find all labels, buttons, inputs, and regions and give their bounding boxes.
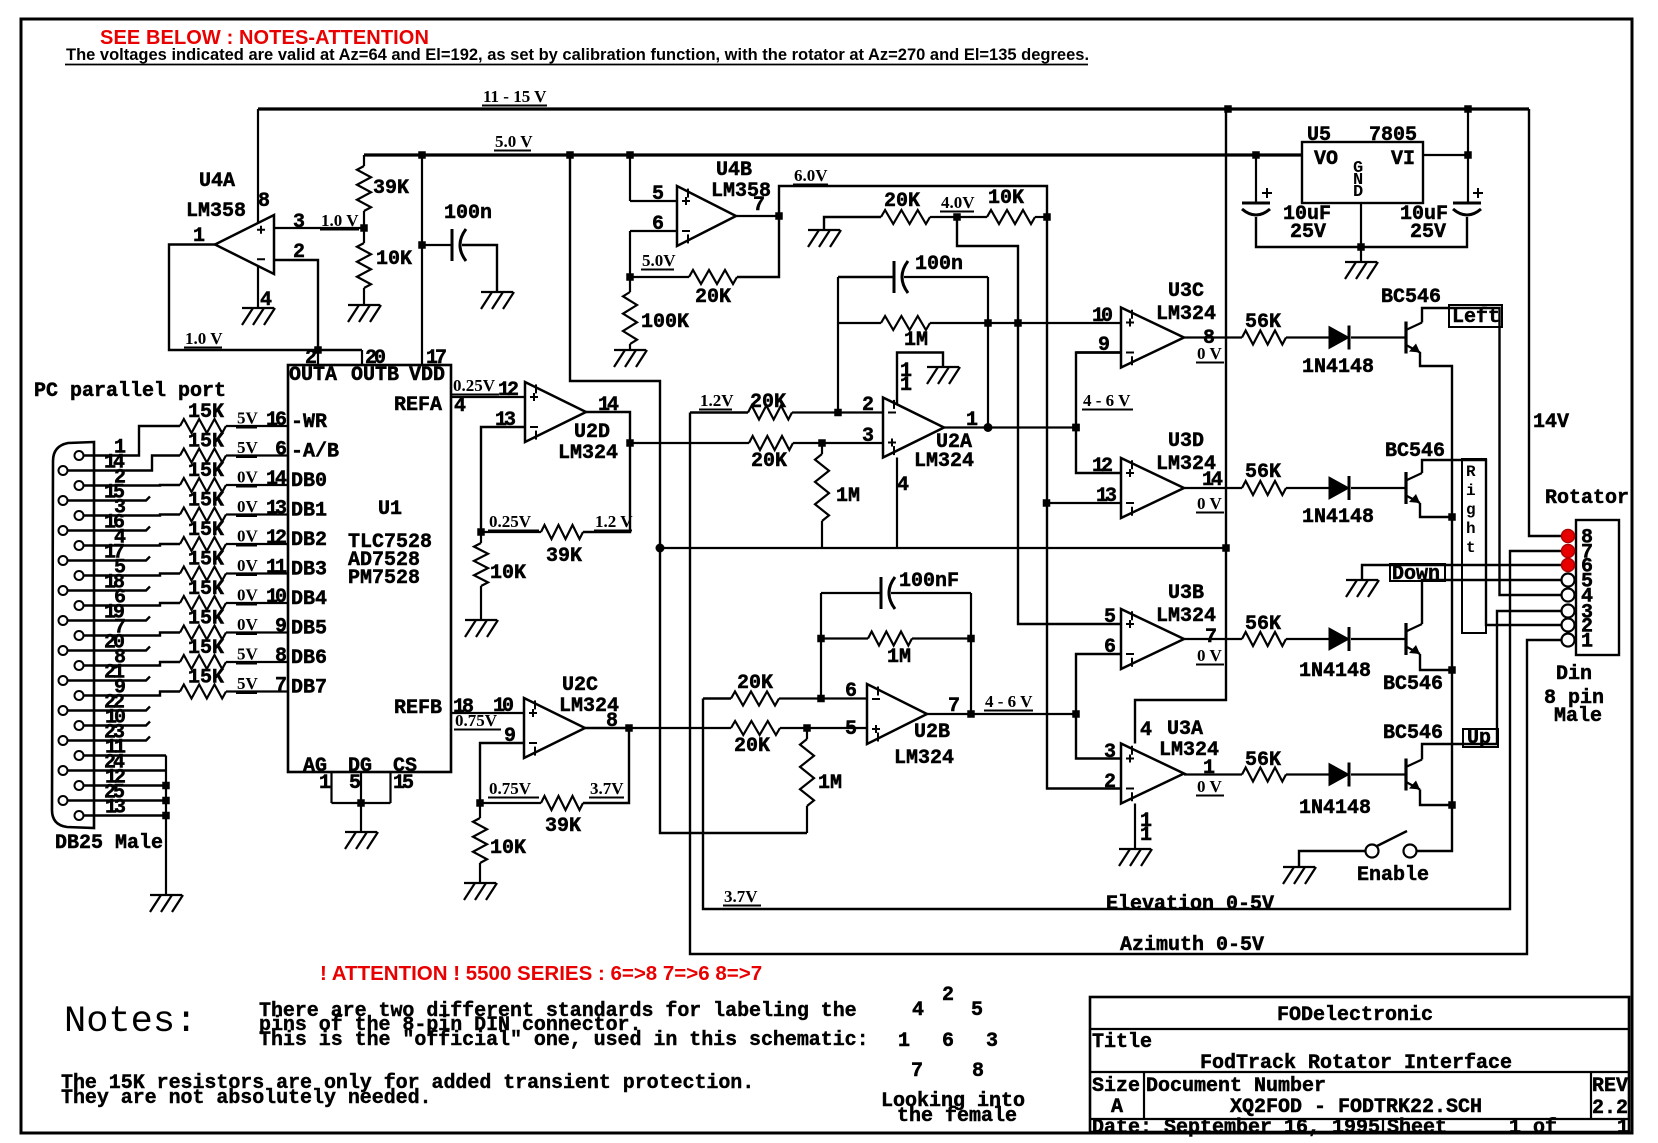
svg-text:4.0V: 4.0V <box>941 193 975 212</box>
svg-text:Left: Left <box>1452 306 1500 329</box>
svg-text:U3D: U3D <box>1168 430 1204 453</box>
svg-text:1M: 1M <box>887 646 911 669</box>
svg-text:7805: 7805 <box>1369 124 1417 147</box>
svg-text:3.7V: 3.7V <box>590 779 624 798</box>
svg-text:15K: 15K <box>188 460 224 483</box>
svg-text:U4A: U4A <box>199 170 235 193</box>
svg-text:15K: 15K <box>188 667 224 690</box>
svg-text:5: 5 <box>971 999 983 1022</box>
svg-text:0 V: 0 V <box>1197 494 1222 513</box>
svg-text:g: g <box>1466 501 1476 519</box>
svg-text:DB4: DB4 <box>291 588 327 611</box>
svg-text:10K: 10K <box>490 837 526 860</box>
svg-text:Sheet: Sheet <box>1387 1117 1447 1140</box>
svg-text:Male: Male <box>1554 705 1602 728</box>
svg-text:39K: 39K <box>546 545 582 568</box>
svg-text:t: t <box>1466 539 1476 557</box>
svg-text:DB5: DB5 <box>291 618 327 641</box>
svg-text:U2D: U2D <box>574 421 610 444</box>
svg-text:U3B: U3B <box>1168 582 1204 605</box>
svg-text:VO: VO <box>1314 148 1338 171</box>
svg-text:The voltages indicated are val: The voltages indicated are valid at Az=6… <box>66 46 1089 64</box>
svg-text:0V: 0V <box>237 556 259 575</box>
svg-text:1.0 V: 1.0 V <box>321 211 359 230</box>
svg-text:0V: 0V <box>237 497 259 516</box>
svg-text:8: 8 <box>972 1060 984 1083</box>
svg-text:Rotator: Rotator <box>1545 487 1629 510</box>
svg-text:14: 14 <box>266 468 287 491</box>
svg-text:20K: 20K <box>737 672 773 695</box>
svg-text:15K: 15K <box>188 608 224 631</box>
svg-text:56K: 56K <box>1245 749 1281 772</box>
svg-text:20: 20 <box>365 347 385 370</box>
svg-text:100nF: 100nF <box>899 570 959 593</box>
svg-text:10: 10 <box>266 586 286 609</box>
svg-text:4 - 6 V: 4 - 6 V <box>985 692 1033 711</box>
svg-text:6.0V: 6.0V <box>794 166 828 185</box>
svg-text:VI: VI <box>1391 148 1415 171</box>
svg-text:13: 13 <box>495 409 515 432</box>
svg-text:14V: 14V <box>1533 411 1569 434</box>
svg-text:100K: 100K <box>641 311 689 334</box>
svg-text:10K: 10K <box>490 562 526 585</box>
svg-text:5V: 5V <box>237 438 259 457</box>
svg-text:DB3: DB3 <box>291 559 327 582</box>
svg-text:i: i <box>1466 482 1476 500</box>
svg-text:R: R <box>1466 463 1476 481</box>
svg-text:4: 4 <box>912 999 924 1022</box>
svg-text:15K: 15K <box>188 549 224 572</box>
svg-text:7: 7 <box>911 1060 923 1083</box>
svg-text:Elevation 0-5V: Elevation 0-5V <box>1106 893 1274 916</box>
svg-text:REFB: REFB <box>394 697 442 720</box>
svg-text:15K: 15K <box>188 519 224 542</box>
svg-text:1.2 V: 1.2 V <box>595 512 633 531</box>
svg-text:11 - 15 V: 11 - 15 V <box>483 87 547 106</box>
svg-text:Down: Down <box>1392 563 1440 586</box>
svg-text:20K: 20K <box>695 286 731 309</box>
svg-text:h: h <box>1466 520 1476 538</box>
svg-text:5.0V: 5.0V <box>642 251 676 270</box>
svg-text:Document Number: Document Number <box>1146 1075 1326 1098</box>
svg-text:20K: 20K <box>884 190 920 213</box>
svg-text:5V: 5V <box>237 409 259 428</box>
svg-text:-WR: -WR <box>291 411 327 434</box>
svg-text:DB2: DB2 <box>291 529 327 552</box>
svg-text:They are not absolutely needed: They are not absolutely needed. <box>61 1087 432 1110</box>
svg-text:1 of: 1 of <box>1509 1117 1557 1140</box>
svg-text:15K: 15K <box>188 431 224 454</box>
svg-text:U4B: U4B <box>716 159 752 182</box>
svg-text:14: 14 <box>598 394 619 417</box>
svg-text:39K: 39K <box>373 177 409 200</box>
svg-text:LM324: LM324 <box>558 442 618 465</box>
svg-text:DB0: DB0 <box>291 470 327 493</box>
svg-text:13: 13 <box>105 797 125 820</box>
svg-text:15K: 15K <box>188 578 224 601</box>
svg-text:20K: 20K <box>750 391 786 414</box>
svg-text:1N4148: 1N4148 <box>1299 660 1371 683</box>
svg-text:0.25V: 0.25V <box>489 512 532 531</box>
svg-text:15K: 15K <box>188 637 224 660</box>
svg-text:-A/B: -A/B <box>291 441 339 464</box>
svg-text:20K: 20K <box>734 735 770 758</box>
svg-text:15K: 15K <box>188 490 224 513</box>
svg-text:U1: U1 <box>378 498 402 521</box>
svg-text:16: 16 <box>266 409 286 432</box>
svg-text:20K: 20K <box>751 450 787 473</box>
svg-text:15K: 15K <box>188 401 224 424</box>
svg-text:! ATTENTION ! 5500 SERIES : 6=: ! ATTENTION ! 5500 SERIES : 6=>8 7=>6 8=… <box>320 962 762 985</box>
svg-text:Enable: Enable <box>1357 864 1429 887</box>
svg-text:12: 12 <box>498 379 518 402</box>
svg-text:39K: 39K <box>545 815 581 838</box>
svg-text:5V: 5V <box>237 674 259 693</box>
svg-text:LM324: LM324 <box>1156 303 1216 326</box>
svg-text:DB1: DB1 <box>291 500 327 523</box>
svg-text:1.0 V: 1.0 V <box>185 329 223 348</box>
svg-text:3: 3 <box>986 1030 998 1053</box>
svg-text:5V: 5V <box>237 645 259 664</box>
svg-text:3.7V: 3.7V <box>724 887 758 906</box>
svg-text:BC546: BC546 <box>1381 286 1441 309</box>
svg-text:5.0 V: 5.0 V <box>495 132 533 151</box>
svg-text:10: 10 <box>1092 305 1112 328</box>
svg-text:U3C: U3C <box>1168 280 1204 303</box>
svg-text:Notes:: Notes: <box>64 1001 197 1043</box>
svg-text:13: 13 <box>266 498 286 521</box>
svg-text:U2C: U2C <box>562 674 598 697</box>
svg-text:Date: September 16, 1995: Date: September 16, 1995 <box>1092 1117 1380 1140</box>
svg-text:PC parallel port: PC parallel port <box>34 380 226 403</box>
svg-text:1N4148: 1N4148 <box>1302 356 1374 379</box>
svg-text:LM324: LM324 <box>894 747 954 770</box>
svg-text:Up: Up <box>1467 727 1491 750</box>
svg-text:12: 12 <box>1092 455 1112 478</box>
svg-text:DB6: DB6 <box>291 647 327 670</box>
svg-text:REFA: REFA <box>394 394 442 417</box>
svg-text:56K: 56K <box>1245 461 1281 484</box>
svg-text:14: 14 <box>1202 469 1223 492</box>
svg-text:100n: 100n <box>444 202 492 225</box>
svg-text:12: 12 <box>266 527 286 550</box>
svg-text:6: 6 <box>942 1030 954 1053</box>
svg-text:0V: 0V <box>237 586 259 605</box>
svg-text:4 - 6 V: 4 - 6 V <box>1083 391 1131 410</box>
svg-text:11: 11 <box>266 557 287 580</box>
svg-text:Title: Title <box>1092 1031 1152 1054</box>
svg-text:U5: U5 <box>1307 124 1331 147</box>
svg-text:1M: 1M <box>904 329 928 352</box>
svg-text:10K: 10K <box>376 248 412 271</box>
svg-text:DB25 Male: DB25 Male <box>55 832 163 855</box>
svg-text:Azimuth 0-5V: Azimuth 0-5V <box>1120 934 1264 957</box>
svg-text:10K: 10K <box>988 187 1024 210</box>
svg-text:DB7: DB7 <box>291 677 327 700</box>
svg-text:25V: 25V <box>1410 221 1446 244</box>
svg-text:15: 15 <box>393 772 413 795</box>
svg-text:This is the "official" one, us: This is the "official" one, used in this… <box>259 1029 869 1052</box>
svg-text:25V: 25V <box>1290 221 1326 244</box>
svg-text:10: 10 <box>493 695 513 718</box>
svg-text:Size: Size <box>1092 1075 1140 1098</box>
svg-text:56K: 56K <box>1245 311 1281 334</box>
svg-text:LM358: LM358 <box>186 200 246 223</box>
svg-text:1: 1 <box>1581 631 1593 654</box>
svg-text:U3A: U3A <box>1167 718 1203 741</box>
svg-text:1.2V: 1.2V <box>700 391 734 410</box>
svg-text:0V: 0V <box>237 468 259 487</box>
svg-text:1N4148: 1N4148 <box>1302 506 1374 529</box>
svg-text:0.75V: 0.75V <box>489 779 532 798</box>
svg-text:0.25V: 0.25V <box>453 376 496 395</box>
svg-text:REV: REV <box>1592 1075 1628 1098</box>
svg-text:FodTrack Rotator Interface: FodTrack Rotator Interface <box>1200 1052 1512 1075</box>
svg-text:LM324: LM324 <box>1156 605 1216 628</box>
svg-text:BC546: BC546 <box>1383 673 1443 696</box>
svg-text:18: 18 <box>453 696 473 719</box>
svg-text:56K: 56K <box>1245 613 1281 636</box>
svg-text:2: 2 <box>942 984 954 1007</box>
svg-text:BC546: BC546 <box>1385 440 1445 463</box>
svg-text:100n: 100n <box>915 253 963 276</box>
svg-text:1: 1 <box>1617 1117 1629 1140</box>
svg-text:BC546: BC546 <box>1383 722 1443 745</box>
svg-text:PM7528: PM7528 <box>348 567 420 590</box>
svg-text:1N4148: 1N4148 <box>1299 797 1371 820</box>
svg-text:17: 17 <box>426 347 446 370</box>
svg-text:Din: Din <box>1556 663 1592 686</box>
svg-text:1M: 1M <box>818 772 842 795</box>
svg-text:0V: 0V <box>237 615 259 634</box>
svg-text:13: 13 <box>1096 485 1116 508</box>
svg-text:1: 1 <box>898 1030 910 1053</box>
svg-text:the female: the female <box>897 1105 1017 1128</box>
svg-text:0V: 0V <box>237 527 259 546</box>
svg-text:D: D <box>1353 183 1363 202</box>
svg-text:FODelectronic: FODelectronic <box>1277 1004 1433 1027</box>
svg-text:1M: 1M <box>836 485 860 508</box>
svg-text:U2B: U2B <box>914 721 950 744</box>
svg-text:LM324: LM324 <box>914 450 974 473</box>
